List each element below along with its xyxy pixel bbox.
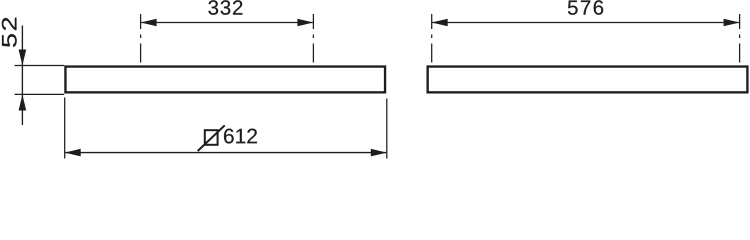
dimension 332 centre-line left bbox=[140, 14, 142, 63]
dimension 612 line bbox=[65, 149, 387, 157]
luminaire body right (side view) bbox=[428, 67, 748, 93]
dimension 52 label bbox=[2, 18, 17, 47]
dimension 612 extension line right bbox=[386, 99, 388, 159]
dimension 576 centre-line left bbox=[431, 14, 433, 63]
dimension 576 centre-line right bbox=[739, 14, 741, 63]
dimension 612 label bbox=[224, 129, 257, 144]
dimension 52 line bbox=[19, 26, 27, 126]
dimension 52 extension line top bbox=[15, 65, 65, 67]
dimension 332 line bbox=[141, 19, 314, 27]
dimension 576 label bbox=[568, 0, 603, 15]
dimension 332 label bbox=[208, 0, 242, 15]
square-section symbol bbox=[198, 125, 225, 151]
dimension 612 extension line left bbox=[64, 98, 66, 159]
luminaire body left (side view) bbox=[65, 67, 385, 93]
dimension 332 centre-line right bbox=[312, 14, 314, 63]
dimension 52 extension line bottom bbox=[15, 93, 65, 95]
dimension 576 line bbox=[432, 19, 740, 27]
